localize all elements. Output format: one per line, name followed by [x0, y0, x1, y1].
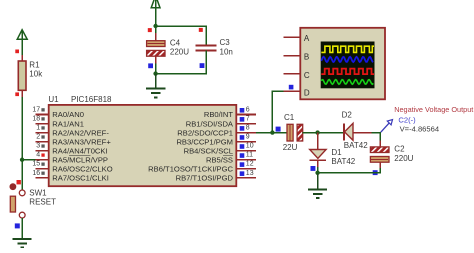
svg-text:RB3/CCP1/PGM: RB3/CCP1/PGM: [176, 137, 233, 146]
U1 left pin 17: [32, 106, 84, 119]
wire C2 bottom to D1 ground junction: [318, 168, 381, 173]
svg-text:RA3/AN3/VREF+: RA3/AN3/VREF+: [52, 137, 111, 146]
scope D pin marker blue: [289, 85, 294, 90]
svg-text:RA4/AN4/T0CKI: RA4/AN4/T0CKI: [52, 146, 107, 155]
U1 left pin 4: [36, 152, 108, 165]
node junction at MCLR row: [20, 158, 24, 162]
trace channel D green: [321, 80, 373, 85]
C4 pin marker blue: [148, 63, 153, 68]
svg-text:U1: U1: [48, 95, 59, 104]
node junction D1 ground: [315, 171, 319, 175]
scope input A: [284, 34, 310, 43]
U1 left pin 15: [32, 161, 112, 174]
svg-text:10k: 10k: [29, 69, 43, 78]
svg-text:D: D: [304, 88, 310, 97]
U1 left pin 3: [36, 143, 108, 156]
overline SS: [223, 155, 233, 157]
svg-text:B: B: [304, 53, 309, 62]
capacitor C4: [147, 33, 190, 64]
voltage probe C2(-): [381, 120, 393, 133]
svg-text:11: 11: [246, 152, 253, 159]
svg-text:12: 12: [246, 161, 254, 168]
wire C3 to bottom rail: [156, 50, 207, 73]
svg-text:220U: 220U: [394, 154, 413, 163]
chip U1 PIC16F818: [48, 95, 236, 186]
U1 left pin 2: [36, 134, 112, 147]
svg-text:D2: D2: [342, 110, 353, 119]
svg-text:RB2/SDO/CCP1: RB2/SDO/CCP1: [177, 128, 233, 137]
wire C4 to bottom rail: [155, 64, 157, 74]
wire power arrow to R1: [21, 39, 23, 55]
C4 pin marker red: [148, 28, 152, 32]
diode D1 BAT42: [310, 133, 356, 167]
U1 right pin 7: [186, 115, 256, 128]
svg-text:C: C: [304, 71, 310, 80]
scope screen: [321, 42, 375, 89]
C2 bottom pin marker blue: [373, 170, 378, 175]
wire D2 to C2: [372, 133, 381, 141]
svg-text:RA7/OSC1/CLKI: RA7/OSC1/CLKI: [52, 174, 109, 183]
power symbol +V (above R1): [17, 30, 27, 40]
power symbol +V (top, clipped): [151, 0, 160, 8]
svg-text:RA5/MCLR/VPP: RA5/MCLR/VPP: [52, 155, 108, 164]
capacitor C1 22U: [283, 113, 303, 152]
svg-text:13: 13: [246, 170, 254, 177]
svg-text:RB7/T1OSI/PGD: RB7/T1OSI/PGD: [176, 174, 234, 183]
svg-text:RB6/T1OSO/T1CKI/PGC: RB6/T1OSO/T1CKI/PGC: [148, 165, 233, 174]
svg-text:RA2/AN2/VREF-: RA2/AN2/VREF-: [52, 128, 109, 137]
svg-text:8: 8: [246, 125, 250, 132]
svg-text:17: 17: [32, 106, 40, 113]
trace channel A yellow: [321, 46, 374, 52]
svg-text:RB4/SCK/SCL: RB4/SCK/SCL: [184, 146, 233, 155]
svg-text:15: 15: [32, 161, 40, 168]
svg-text:2: 2: [36, 134, 40, 141]
resistor R1 10k: [18, 55, 43, 97]
D1 bottom pin marker blue: [311, 166, 316, 171]
svg-text:C2(-): C2(-): [398, 116, 416, 125]
R1 bottom pin marker red: [15, 92, 19, 96]
diode D2 BAT42: [342, 110, 372, 150]
svg-text:C3: C3: [220, 38, 231, 47]
ground (below SW1): [13, 239, 32, 248]
SW1 bottom pin marker blue: [15, 223, 20, 228]
U1 left pin 1: [36, 125, 110, 138]
svg-text:C1: C1: [284, 113, 295, 122]
ground (top center): [146, 74, 165, 98]
svg-text:9: 9: [246, 134, 250, 141]
svg-text:4: 4: [36, 152, 40, 159]
U1 right pin 12: [148, 161, 256, 174]
scope input D: [284, 88, 310, 97]
svg-text:RB5/SS: RB5/SS: [206, 155, 233, 164]
svg-text:1: 1: [36, 125, 40, 132]
U1 right pin 11: [206, 152, 256, 165]
svg-text:BAT42: BAT42: [331, 157, 355, 166]
oscilloscope body: [300, 28, 385, 100]
node junction bottom rail: [153, 71, 157, 75]
svg-text:A: A: [304, 34, 310, 43]
node junction D1: [315, 130, 319, 134]
svg-text:10: 10: [246, 143, 254, 150]
svg-text:BAT42: BAT42: [344, 141, 368, 150]
wire D1 to ground junction: [317, 167, 319, 173]
svg-text:C2: C2: [394, 145, 405, 154]
R1 top pin marker red: [15, 50, 19, 54]
node junction scope branch: [270, 130, 274, 134]
C1 left pin marker blue: [276, 127, 281, 132]
svg-text:Negative Voltage Output: Negative Voltage Output: [394, 105, 473, 114]
svg-text:D1: D1: [331, 148, 342, 157]
overline MCLR: [69, 155, 91, 157]
node junction top rail: [153, 24, 157, 28]
svg-text:220U: 220U: [170, 47, 189, 56]
svg-text:7: 7: [246, 115, 250, 122]
svg-text:PIC16F818: PIC16F818: [71, 95, 112, 104]
svg-text:16: 16: [32, 170, 40, 177]
svg-text:6: 6: [246, 106, 250, 113]
U1 right pin 6: [204, 106, 256, 119]
U1 right pin 9: [176, 134, 255, 147]
svg-text:RA0/AN0: RA0/AN0: [52, 110, 84, 119]
switch SW1 RESET: [10, 183, 57, 218]
svg-text:R1: R1: [29, 61, 40, 70]
wire junction up to scope D: [272, 91, 283, 132]
svg-text:18: 18: [32, 115, 40, 122]
svg-text:RA6/OSC2/CLKO: RA6/OSC2/CLKO: [52, 165, 112, 174]
U1 right pin 8: [177, 125, 256, 138]
wire power to top rail junction: [155, 8, 157, 26]
svg-text:RB1/SDI/SDA: RB1/SDI/SDA: [186, 119, 234, 128]
svg-text:3: 3: [36, 143, 40, 150]
U1 left pin 18: [32, 115, 84, 128]
SW1 top pin marker red: [17, 180, 21, 184]
wire top rail to C3: [156, 26, 207, 45]
U1 right pin 10: [184, 143, 256, 156]
svg-text:RESET: RESET: [29, 198, 56, 207]
wire junction to pin RA5: [22, 159, 36, 161]
wire C1 to D1/D2 junction: [303, 132, 344, 134]
scope input C: [284, 71, 310, 80]
C3 pin marker blue: [200, 63, 205, 68]
trace channel C red: [321, 69, 374, 75]
scope input B: [284, 53, 310, 62]
svg-text:22U: 22U: [283, 143, 298, 152]
capacitor C3: [195, 38, 233, 56]
wire R1 to MCLR junction and switch: [21, 97, 23, 190]
trace channel B blue: [321, 57, 373, 62]
svg-text:SW1: SW1: [29, 189, 47, 198]
svg-text:V=-4.86564: V=-4.86564: [400, 125, 439, 134]
ground (below D1): [308, 173, 327, 198]
wire RB2 pin to C1: [256, 132, 287, 134]
svg-text:RB0/INT: RB0/INT: [204, 110, 233, 119]
svg-text:C4: C4: [170, 39, 181, 48]
U1 right pin 13: [176, 170, 256, 183]
wire SW1 to ground: [21, 218, 23, 239]
C3 pin marker red: [199, 28, 203, 32]
svg-text:RA1/AN1: RA1/AN1: [52, 119, 84, 128]
svg-text:10n: 10n: [220, 47, 233, 56]
wire top junction to C4: [155, 26, 157, 35]
U1 left pin 16: [32, 170, 108, 183]
capacitor C2 220U: [370, 141, 413, 169]
